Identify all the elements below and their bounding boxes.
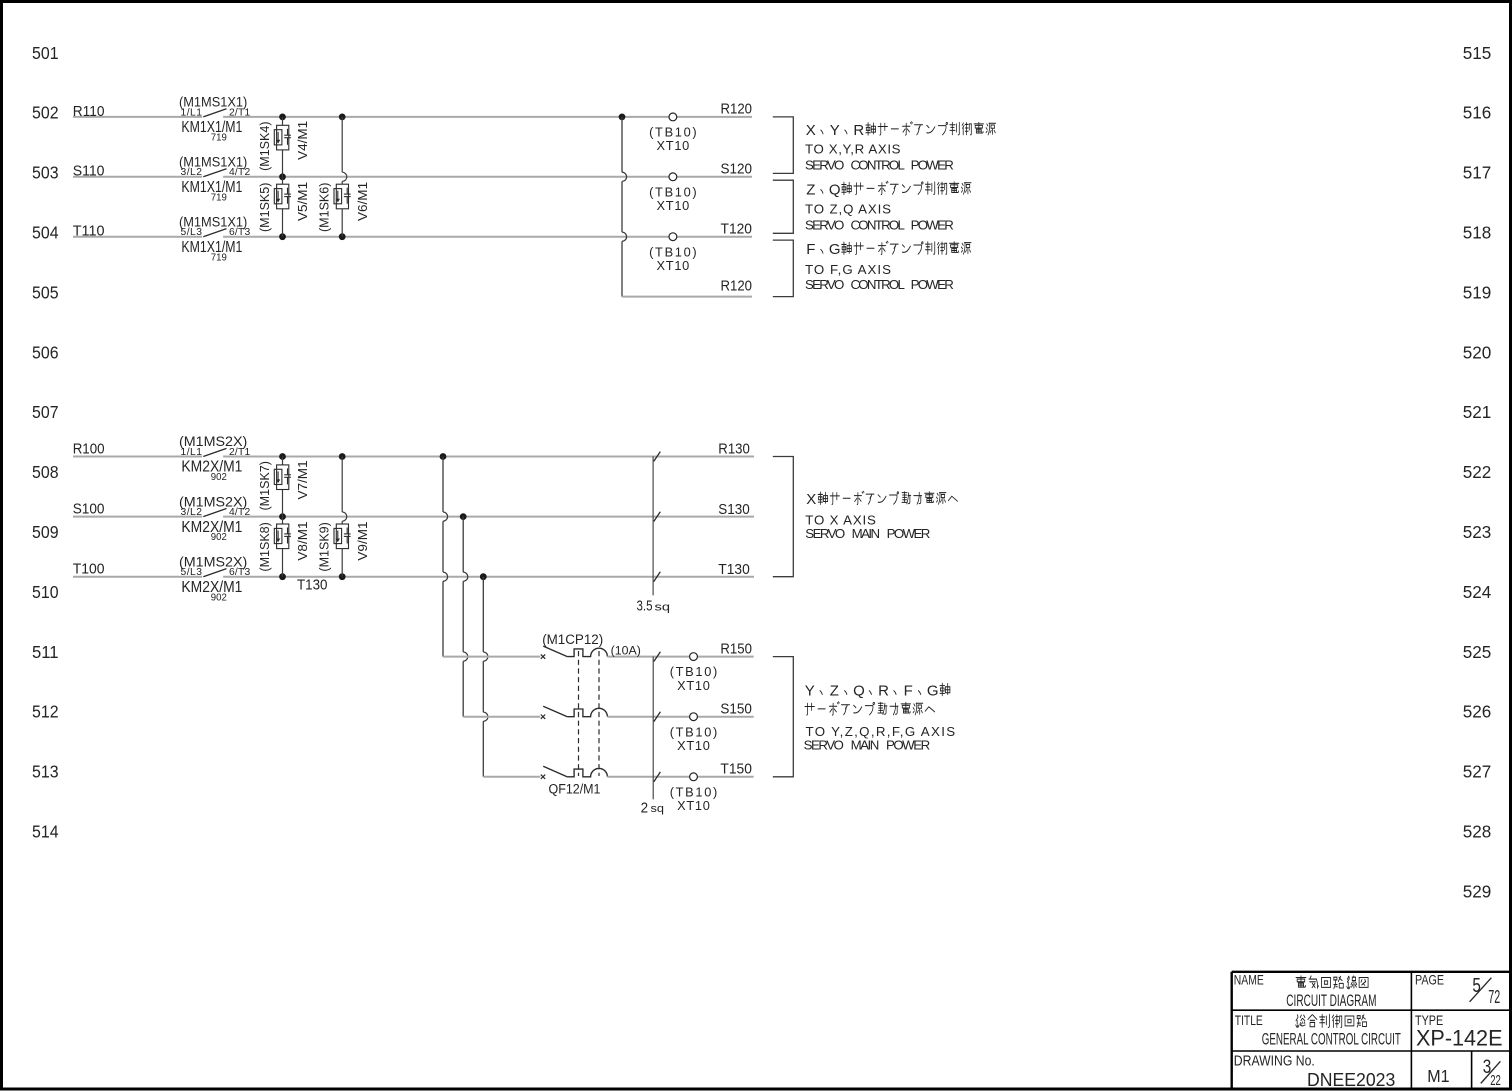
svg-text:523: 523 [1463,522,1492,542]
svg-text:2: 2 [641,801,649,817]
wire branch x622 [622,117,627,297]
svg-text:S150: S150 [720,701,752,718]
svg-text:XT10: XT10 [677,738,710,753]
terminal XT10 S150 [690,713,698,721]
svg-text:R: R [853,122,864,139]
svg-text:V4/M1: V4/M1 [295,121,310,160]
node T100-V8 [279,573,286,580]
svg-text:SERVO MAIN POWER: SERVO MAIN POWER [805,526,930,541]
svg-text:506: 506 [32,342,59,362]
wire V6 vertical with hop [342,117,347,184]
svg-text:2/T1: 2/T1 [229,447,250,458]
svg-text:902: 902 [211,592,227,603]
wire S150 out [607,716,753,718]
svg-text:512: 512 [32,702,59,722]
svg-text:513: 513 [32,762,59,782]
page slash [1470,978,1492,1002]
svg-text:XT10: XT10 [657,138,690,153]
svg-text:T130: T130 [297,577,328,594]
node S100-V7V8 [279,513,286,520]
svg-text:504: 504 [32,223,59,243]
breaker pole 2 QF12/M1 [541,715,545,719]
wire T150 out [607,776,753,778]
svg-text:T150: T150 [720,761,752,778]
svg-text:525: 525 [1463,642,1492,662]
svg-text:sq: sq [655,601,671,613]
svg-text:510: 510 [32,582,59,602]
svg-text:R110: R110 [73,103,105,120]
wire T100 left [73,576,202,578]
wire V4 leads [282,117,284,125]
svg-text:527: 527 [1463,762,1492,782]
svg-text:TITLE: TITLE [1235,1013,1263,1028]
svg-text:902: 902 [211,532,227,543]
wire T110 right [223,236,752,238]
svg-text:521: 521 [1463,402,1492,422]
svg-text:T120: T120 [721,220,753,237]
svg-text:S100: S100 [73,501,105,518]
node R100-branch [440,453,447,460]
svg-text:528: 528 [1463,822,1492,842]
svg-text:NAME: NAME [1234,972,1264,987]
svg-text:6/T3: 6/T3 [229,227,250,238]
node R110-V4 [279,114,286,121]
svg-text:Q: Q [853,682,865,699]
svg-text:V8/M1: V8/M1 [295,522,310,561]
svg-text:1/L1: 1/L1 [181,447,203,458]
breaker pole 1 QF12/M1 [541,654,545,658]
svg-text:4/T2: 4/T2 [229,167,250,178]
svg-text:517: 517 [1463,163,1492,183]
title name jp [1296,976,1306,987]
svg-text:DNEE2023: DNEE2023 [1307,1069,1395,1090]
svg-text:S130: S130 [718,501,750,518]
wire S100 left [73,516,202,518]
svg-text:SERVO CONTROL POWER: SERVO CONTROL POWER [805,157,954,172]
wire branch S x463 [463,517,468,717]
svg-text:T130: T130 [718,561,750,578]
svg-text:XT10: XT10 [677,678,710,693]
svg-text:R: R [878,682,889,699]
node T110-V6 [339,233,346,240]
svg-text:SERVO CONTROL POWER: SERVO CONTROL POWER [805,217,954,232]
node R110-branch [619,114,626,121]
terminal XT10 R150 [690,653,698,661]
bracket Z/Q control [773,180,794,233]
terminal XT10 row 503 [669,173,677,181]
gauge slash T150 [654,772,661,782]
svg-text:520: 520 [1463,342,1492,362]
wire R100 right [223,456,754,458]
svg-text:F: F [904,682,913,699]
svg-text:515: 515 [1463,43,1492,63]
svg-text:4/T2: 4/T2 [229,507,250,518]
svg-text:514: 514 [32,822,59,842]
svg-text:T110: T110 [73,223,105,240]
svg-text:(M1SK5): (M1SK5) [258,183,272,232]
wire S110 left [73,176,202,178]
svg-text:R120: R120 [721,278,753,295]
svg-text:511: 511 [32,642,59,662]
surge killer V6/M1 [334,184,351,209]
svg-text:F: F [806,241,815,258]
svg-text:XT10: XT10 [657,258,690,273]
wire V9 vertical with hop [342,457,347,525]
bracket F/G control [773,240,794,297]
terminal XT10 row 502 [669,113,677,121]
svg-text:R150: R150 [720,640,752,657]
svg-text:(M1SK9): (M1SK9) [318,522,332,571]
svg-text:522: 522 [1463,462,1492,482]
node T100-branch [480,573,487,580]
wire feed T150 [483,776,540,778]
svg-text:526: 526 [1463,702,1492,722]
svg-text:(M1CP12): (M1CP12) [542,632,603,647]
title title jp [1296,1015,1305,1028]
surge killer V4/M1 [274,125,291,150]
svg-text:902: 902 [211,472,227,483]
terminal XT10 T150 [690,773,698,781]
svg-text:G: G [927,682,939,699]
svg-text:CIRCUIT DIAGRAM: CIRCUIT DIAGRAM [1286,991,1376,1010]
svg-text:S120: S120 [721,161,753,178]
svg-text:XP-142E: XP-142E [1416,1026,1503,1051]
svg-text:V6/M1: V6/M1 [355,182,370,221]
svg-text:Q: Q [829,181,841,198]
svg-text:XT10: XT10 [677,798,710,813]
svg-text:V7/M1: V7/M1 [295,460,310,499]
wire branch R x443 [443,457,448,657]
wire T110 left [73,236,202,238]
svg-text:719: 719 [211,192,227,203]
svg-text:X: X [806,491,816,508]
svg-text:529: 529 [1463,881,1492,901]
svg-text:5/L3: 5/L3 [181,567,203,578]
svg-text:R130: R130 [718,441,750,458]
wire S110 right [223,176,752,178]
rev slash [1481,1061,1501,1083]
svg-text:5/L3: 5/L3 [181,227,203,238]
gauge slash S150 [654,712,661,722]
node S100-branch [460,513,467,520]
svg-text:3/L2: 3/L2 [181,167,203,178]
svg-text:Z: Z [830,682,839,699]
node R110-V6 [339,114,346,121]
gauge line 3.5sq [652,457,654,596]
svg-text:(M1SK8): (M1SK8) [258,522,272,571]
gauge line 2sq [652,657,654,800]
wire R110 left [73,116,202,118]
node R100-V9 [339,453,346,460]
svg-text:sq: sq [651,803,665,815]
svg-text:518: 518 [1463,223,1492,243]
node S110-V4V5 [279,173,286,180]
svg-text:22: 22 [1490,1073,1501,1089]
svg-text:R100: R100 [73,440,105,457]
svg-text:72: 72 [1488,986,1500,1007]
svg-text:R120: R120 [721,101,753,118]
bracket X/Y/R control [773,117,794,173]
breaker pole 3 QF12/M1 [541,775,545,779]
wire R120 bottom [622,296,752,298]
svg-text:Z: Z [806,181,815,198]
wire V9 lower lead [341,549,343,577]
svg-text:3/L2: 3/L2 [181,507,203,518]
node R100-V7 [279,453,286,460]
surge killer V5/M1 [274,184,291,209]
bracket YZQRFG main [773,657,794,777]
wire branch T x483 [483,577,488,777]
svg-text:XT10: XT10 [657,198,690,213]
svg-text:1/L1: 1/L1 [181,107,203,118]
gauge slash R150 [654,652,661,662]
svg-text:TO X AXIS: TO X AXIS [805,512,876,527]
svg-text:TO F,G AXIS: TO F,G AXIS [805,262,891,277]
svg-text:Y: Y [805,682,815,699]
title block frame [1232,972,1510,1089]
svg-text:519: 519 [1463,282,1492,302]
svg-text:DRAWING No.: DRAWING No. [1234,1053,1315,1069]
svg-text:719: 719 [211,133,227,144]
svg-text:(M1SK4): (M1SK4) [258,121,272,170]
wire S100 right [223,516,754,518]
node T110-V5 [279,233,286,240]
svg-text:516: 516 [1463,103,1492,123]
svg-text:(10A): (10A) [611,643,641,657]
svg-text:G: G [829,241,841,258]
wire feed R150 [443,656,540,658]
wire R150 out [607,656,753,658]
wire V6 lower lead [341,209,343,237]
svg-text:SERVO CONTROL POWER: SERVO CONTROL POWER [805,277,954,292]
breaker linkage dashes [578,651,580,776]
svg-text:(M1SK6): (M1SK6) [318,183,332,232]
svg-text:719: 719 [211,252,227,263]
svg-text:501: 501 [32,43,59,63]
svg-text:TO Z,Q AXIS: TO Z,Q AXIS [805,202,891,217]
svg-text:X: X [806,122,816,139]
svg-text:503: 503 [32,163,59,183]
svg-text:3.5: 3.5 [637,599,653,615]
wire V5 leads [282,177,284,184]
svg-text:PAGE: PAGE [1415,972,1444,987]
terminal XT10 row 504 [669,233,677,241]
node T100-V9 [339,573,346,580]
gauge slash R130 [654,452,661,462]
wire V7 leads [282,457,284,465]
svg-text:(M1SK7): (M1SK7) [258,461,272,510]
wire R100 left [73,456,202,458]
svg-text:V5/M1: V5/M1 [295,182,310,221]
svg-text:M1: M1 [1427,1066,1449,1086]
svg-text:6/T3: 6/T3 [229,567,250,578]
svg-text:502: 502 [32,103,59,123]
svg-text:Y: Y [830,122,840,139]
wire feed S150 [463,716,540,718]
surge killer V7/M1 [274,465,291,490]
surge killer V8/M1 [274,524,291,549]
svg-text:GENERAL CONTROL CIRCUIT: GENERAL CONTROL CIRCUIT [1262,1030,1401,1049]
svg-text:QF12/M1: QF12/M1 [549,781,601,796]
svg-text:S110: S110 [73,163,105,180]
svg-text:TO X,Y,R AXIS: TO X,Y,R AXIS [805,141,901,156]
svg-text:2/T1: 2/T1 [229,107,250,118]
svg-text:507: 507 [32,402,59,422]
svg-text:509: 509 [32,522,59,542]
gauge slash T130 [654,572,661,582]
svg-text:T100: T100 [73,561,105,578]
note YZQRFG jp2 [805,703,814,715]
wire R110 right [223,116,752,118]
svg-text:508: 508 [32,462,59,482]
svg-text:505: 505 [32,282,59,302]
wire T100 right [223,576,754,578]
surge killer V9/M1 [334,524,351,549]
wire V8 leads [282,517,284,524]
svg-text:524: 524 [1463,582,1492,602]
svg-text:SERVO MAIN POWER: SERVO MAIN POWER [804,737,931,752]
bracket X main [773,457,794,577]
gauge slash S130 [654,512,661,522]
svg-text:V9/M1: V9/M1 [355,522,370,561]
